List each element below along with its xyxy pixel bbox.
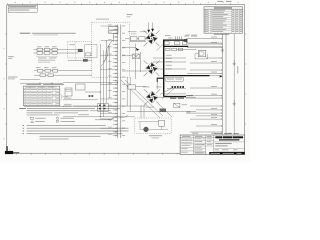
border frame bbox=[7, 5, 245, 154]
thick stub joining from left bbox=[157, 77, 165, 79]
parts table cell text bbox=[24, 87, 60, 104]
horizontal wires lower middle bbox=[127, 87, 196, 112]
revision table column rules bbox=[206, 9, 239, 33]
diode bridge CR2 (diamond) bbox=[146, 92, 157, 103]
thick bus trace second horizontal bbox=[164, 45, 188, 47]
diamond 2 outline bbox=[146, 91, 158, 103]
feedback wire loop around U4 bbox=[195, 54, 208, 59]
connector shell symbol end of trace bbox=[184, 39, 187, 43]
legend symbol row 1 bbox=[31, 117, 75, 119]
dashed enclosure box B bbox=[135, 118, 171, 133]
hatch ticks above upper thick trace bbox=[176, 36, 182, 40]
right side horizontal wires bbox=[186, 37, 222, 133]
scale/sheet texts bbox=[215, 148, 238, 151]
logic gate U4 bbox=[198, 50, 205, 57]
middle column row rules bbox=[194, 140, 206, 151]
inner relay box K1 bbox=[85, 45, 97, 58]
suppressor component box (dark) bbox=[78, 49, 82, 52]
bottom labels under rails bbox=[215, 133, 240, 136]
thin continuation of trace to arrow bbox=[210, 75, 222, 77]
label right of crossed box bbox=[182, 103, 188, 106]
relay K2 contact block bbox=[98, 103, 108, 111]
sheet marks above top border bbox=[218, 1, 232, 2]
thin wires right of connector shell bbox=[187, 42, 221, 44]
numbered notes list bbox=[23, 125, 129, 139]
company name DATA GENERAL CORPORATION bbox=[215, 136, 243, 138]
wires from filter block into box C bbox=[63, 50, 93, 76]
parts table column rules bbox=[26, 86, 56, 105]
right vertical rail 2 bbox=[225, 34, 227, 136]
junction cluster left of pins bbox=[89, 95, 94, 97]
vertical wire x135.6 bbox=[135, 44, 137, 80]
vertical wires under dashed box A right edge bbox=[127, 77, 130, 112]
upper-left note text line bbox=[20, 33, 76, 36]
border zone ticks bottom bbox=[17, 153, 236, 155]
shield ground symbol mid bbox=[233, 60, 236, 65]
wire through filter block row 2 bbox=[34, 52, 63, 54]
right vertical rail 3 bbox=[233, 34, 235, 136]
junction dots center bbox=[100, 82, 118, 118]
box inside B bbox=[159, 120, 165, 126]
filter boxes row 2 bbox=[37, 52, 57, 55]
component box on y111 wire bbox=[160, 109, 166, 112]
revision table header band bbox=[204, 7, 243, 9]
thin wire continuing below stub bbox=[156, 82, 158, 89]
page background bbox=[0, 0, 250, 162]
notes line 3 bbox=[27, 109, 112, 112]
label under box B bbox=[149, 134, 162, 137]
notes line 5 bbox=[27, 114, 60, 117]
component boxes between thick rails bbox=[164, 42, 186, 45]
wire under terminal row bbox=[167, 87, 186, 89]
terminal label TB1 left edge bbox=[8, 56, 14, 59]
diagonal harness wires bbox=[121, 80, 172, 118]
notes line 2 bbox=[19, 108, 120, 109]
relay coil box K1 left bbox=[65, 88, 72, 96]
wire y60 under box C bbox=[68, 59, 92, 61]
rule under company name bbox=[214, 141, 245, 143]
IC box U1 inside box A bbox=[109, 27, 118, 31]
application row above title block bbox=[192, 132, 232, 135]
lower horizontal wire y83 bbox=[20, 82, 63, 84]
wire stubs above diamond 1 bbox=[149, 23, 153, 33]
wire through filter block row 1 bbox=[34, 49, 63, 51]
drawing title lines bbox=[215, 143, 232, 146]
brace and label under block 1 bbox=[36, 55, 58, 57]
bracket right of parts table bbox=[60, 94, 62, 100]
title block header texts bbox=[182, 135, 212, 138]
labels right of trace end bbox=[185, 34, 197, 37]
wire from U2 down bbox=[113, 34, 115, 42]
wires left-center area bbox=[63, 82, 146, 116]
white text in black bar bbox=[211, 152, 242, 155]
scan corner blob bottom-left bbox=[5, 151, 13, 154]
diamond mid leads bbox=[144, 60, 160, 76]
arrowheads above diamond 1 bbox=[147, 30, 150, 33]
label row above filter block 2 bbox=[36, 66, 57, 69]
narrow column rows bbox=[206, 140, 214, 146]
short wire y93.9 bbox=[163, 93, 186, 95]
label row above filter block 1 bbox=[37, 45, 57, 48]
thick bus trace vertical bbox=[163, 40, 165, 97]
crossed connector box mid-left bbox=[133, 54, 140, 59]
tiny label upper area x127 bbox=[127, 14, 133, 17]
diode bridge CR3 (diamond mid) bbox=[146, 63, 157, 74]
relay K2 contacts bbox=[99, 105, 106, 110]
label under revision table bbox=[214, 33, 230, 36]
arrow on trace at rail bbox=[220, 75, 223, 77]
wire through block 2 row 2 bbox=[34, 74, 63, 76]
right vertical rail 1 bbox=[221, 34, 223, 136]
revision table cell text bbox=[204, 10, 242, 32]
input wire from border to block 2 bbox=[20, 78, 40, 80]
series component boxes on wire bbox=[130, 37, 137, 41]
connector J1 rails bbox=[118, 25, 121, 139]
wires down to dashed box B bbox=[141, 105, 144, 118]
vertical bus wires center bbox=[100, 40, 110, 117]
diamond 1 outline bbox=[146, 32, 158, 44]
text row under pin column bbox=[100, 118, 114, 121]
filter boxes row 1 bbox=[37, 48, 57, 51]
leader squiggle right of legend bbox=[110, 115, 128, 121]
connector J1 pins bbox=[101, 24, 126, 136]
diamond 2 leads bbox=[144, 89, 160, 105]
diamond mid outline bbox=[146, 62, 158, 74]
notes line 4 bbox=[27, 111, 79, 114]
scale/sheet row rules bbox=[214, 148, 245, 150]
wire through block 2 row 1 bbox=[34, 70, 63, 72]
vertical wire x140.5 bbox=[140, 52, 142, 72]
middle column field texts bbox=[194, 138, 204, 153]
revision table top-right bbox=[204, 7, 243, 33]
wires inside B bbox=[138, 122, 168, 130]
border zone ticks top bbox=[8, 3, 231, 5]
diode bridge CR1 (diamond) bbox=[146, 33, 157, 44]
input label lines bottom-left bbox=[8, 77, 18, 80]
crossed box under thick area bbox=[174, 103, 180, 107]
small box upper lower-area bbox=[128, 85, 136, 89]
filter boxes block 2 row 2 bbox=[40, 74, 53, 77]
title block header rule bbox=[180, 137, 245, 139]
labels under bottom thick rail bbox=[166, 78, 184, 82]
revision table rows bbox=[204, 11, 243, 30]
border zone letters left bbox=[4, 48, 5, 139]
border zone ticks right bbox=[245, 34, 247, 124]
shield ground symbol upper bbox=[221, 46, 224, 52]
wires inside thick box bbox=[153, 50, 196, 70]
wires feeding diamond 1 bbox=[125, 39, 146, 42]
notes heading and first line bbox=[24, 105, 115, 108]
title block vertical rules bbox=[194, 135, 214, 155]
dashed enclosure box A bbox=[92, 22, 130, 77]
motor M1 inside B bbox=[144, 127, 149, 132]
labels around diamond 2 bbox=[143, 87, 162, 108]
parts table bbox=[23, 86, 60, 105]
thick bus trace upper horizontal bbox=[164, 39, 185, 41]
left cell lower rules bbox=[180, 146, 194, 148]
revision stamp text bbox=[9, 6, 36, 10]
tiny labels right of connector area bbox=[183, 36, 197, 41]
labels near left-center wires bbox=[64, 98, 110, 120]
dark designation text under lower thick rail bbox=[170, 98, 184, 99]
tolerance note text left cell bbox=[181, 139, 193, 146]
thick lower horizontal at y96.5 bbox=[164, 96, 186, 98]
curved crossing harness wire bbox=[103, 40, 113, 62]
small boxes under second thick rail bbox=[166, 48, 183, 51]
diagonals converging to terminal row bbox=[160, 89, 174, 100]
revision stamp box top-left bbox=[8, 5, 37, 12]
terminal row under thick rail bbox=[172, 86, 185, 88]
border zone ticks left bbox=[5, 34, 7, 124]
legend symbol row 2 bbox=[31, 121, 76, 123]
junction dots on y83 wire bbox=[39, 83, 52, 84]
cable designation label right bbox=[237, 66, 238, 74]
company address line bbox=[219, 139, 239, 140]
box U5 bbox=[76, 84, 86, 90]
dotted vertical inside box C bbox=[75, 42, 77, 61]
dashed enclosure box C bbox=[68, 42, 92, 59]
shield ground symbol lower bbox=[233, 100, 236, 105]
labels above diamond 1 bbox=[128, 31, 147, 34]
labels above thick trace bbox=[165, 35, 173, 38]
drawing number black bar bbox=[209, 152, 244, 155]
thick bus trace bottom horizontal bbox=[163, 75, 210, 77]
label above suppressor bbox=[70, 43, 76, 46]
credit text left of black bar bbox=[195, 152, 206, 155]
coil box inside K1 bbox=[86, 53, 91, 56]
title block outline bbox=[180, 135, 245, 155]
narrow column texts bbox=[207, 139, 212, 145]
arrowhead on stub wire bbox=[136, 48, 139, 51]
bottom component under box C bbox=[83, 59, 87, 61]
parts table row rules bbox=[23, 89, 60, 103]
pin label rows inside thick box bbox=[166, 55, 172, 70]
border zone numbers top bbox=[15, 2, 239, 3]
cable label above box A bbox=[96, 18, 109, 21]
IC box U2 inside box A bbox=[109, 30, 118, 33]
parts table header text bbox=[26, 84, 64, 85]
filter boxes block 2 row 1 bbox=[38, 69, 58, 72]
diamond 1 leads bbox=[144, 30, 160, 46]
horizontal stub wires from connector to mid verticals bbox=[122, 47, 147, 71]
dark left-end labels right-mid wires bbox=[187, 95, 194, 112]
diagonal wire up to thick vertical bbox=[157, 44, 164, 51]
